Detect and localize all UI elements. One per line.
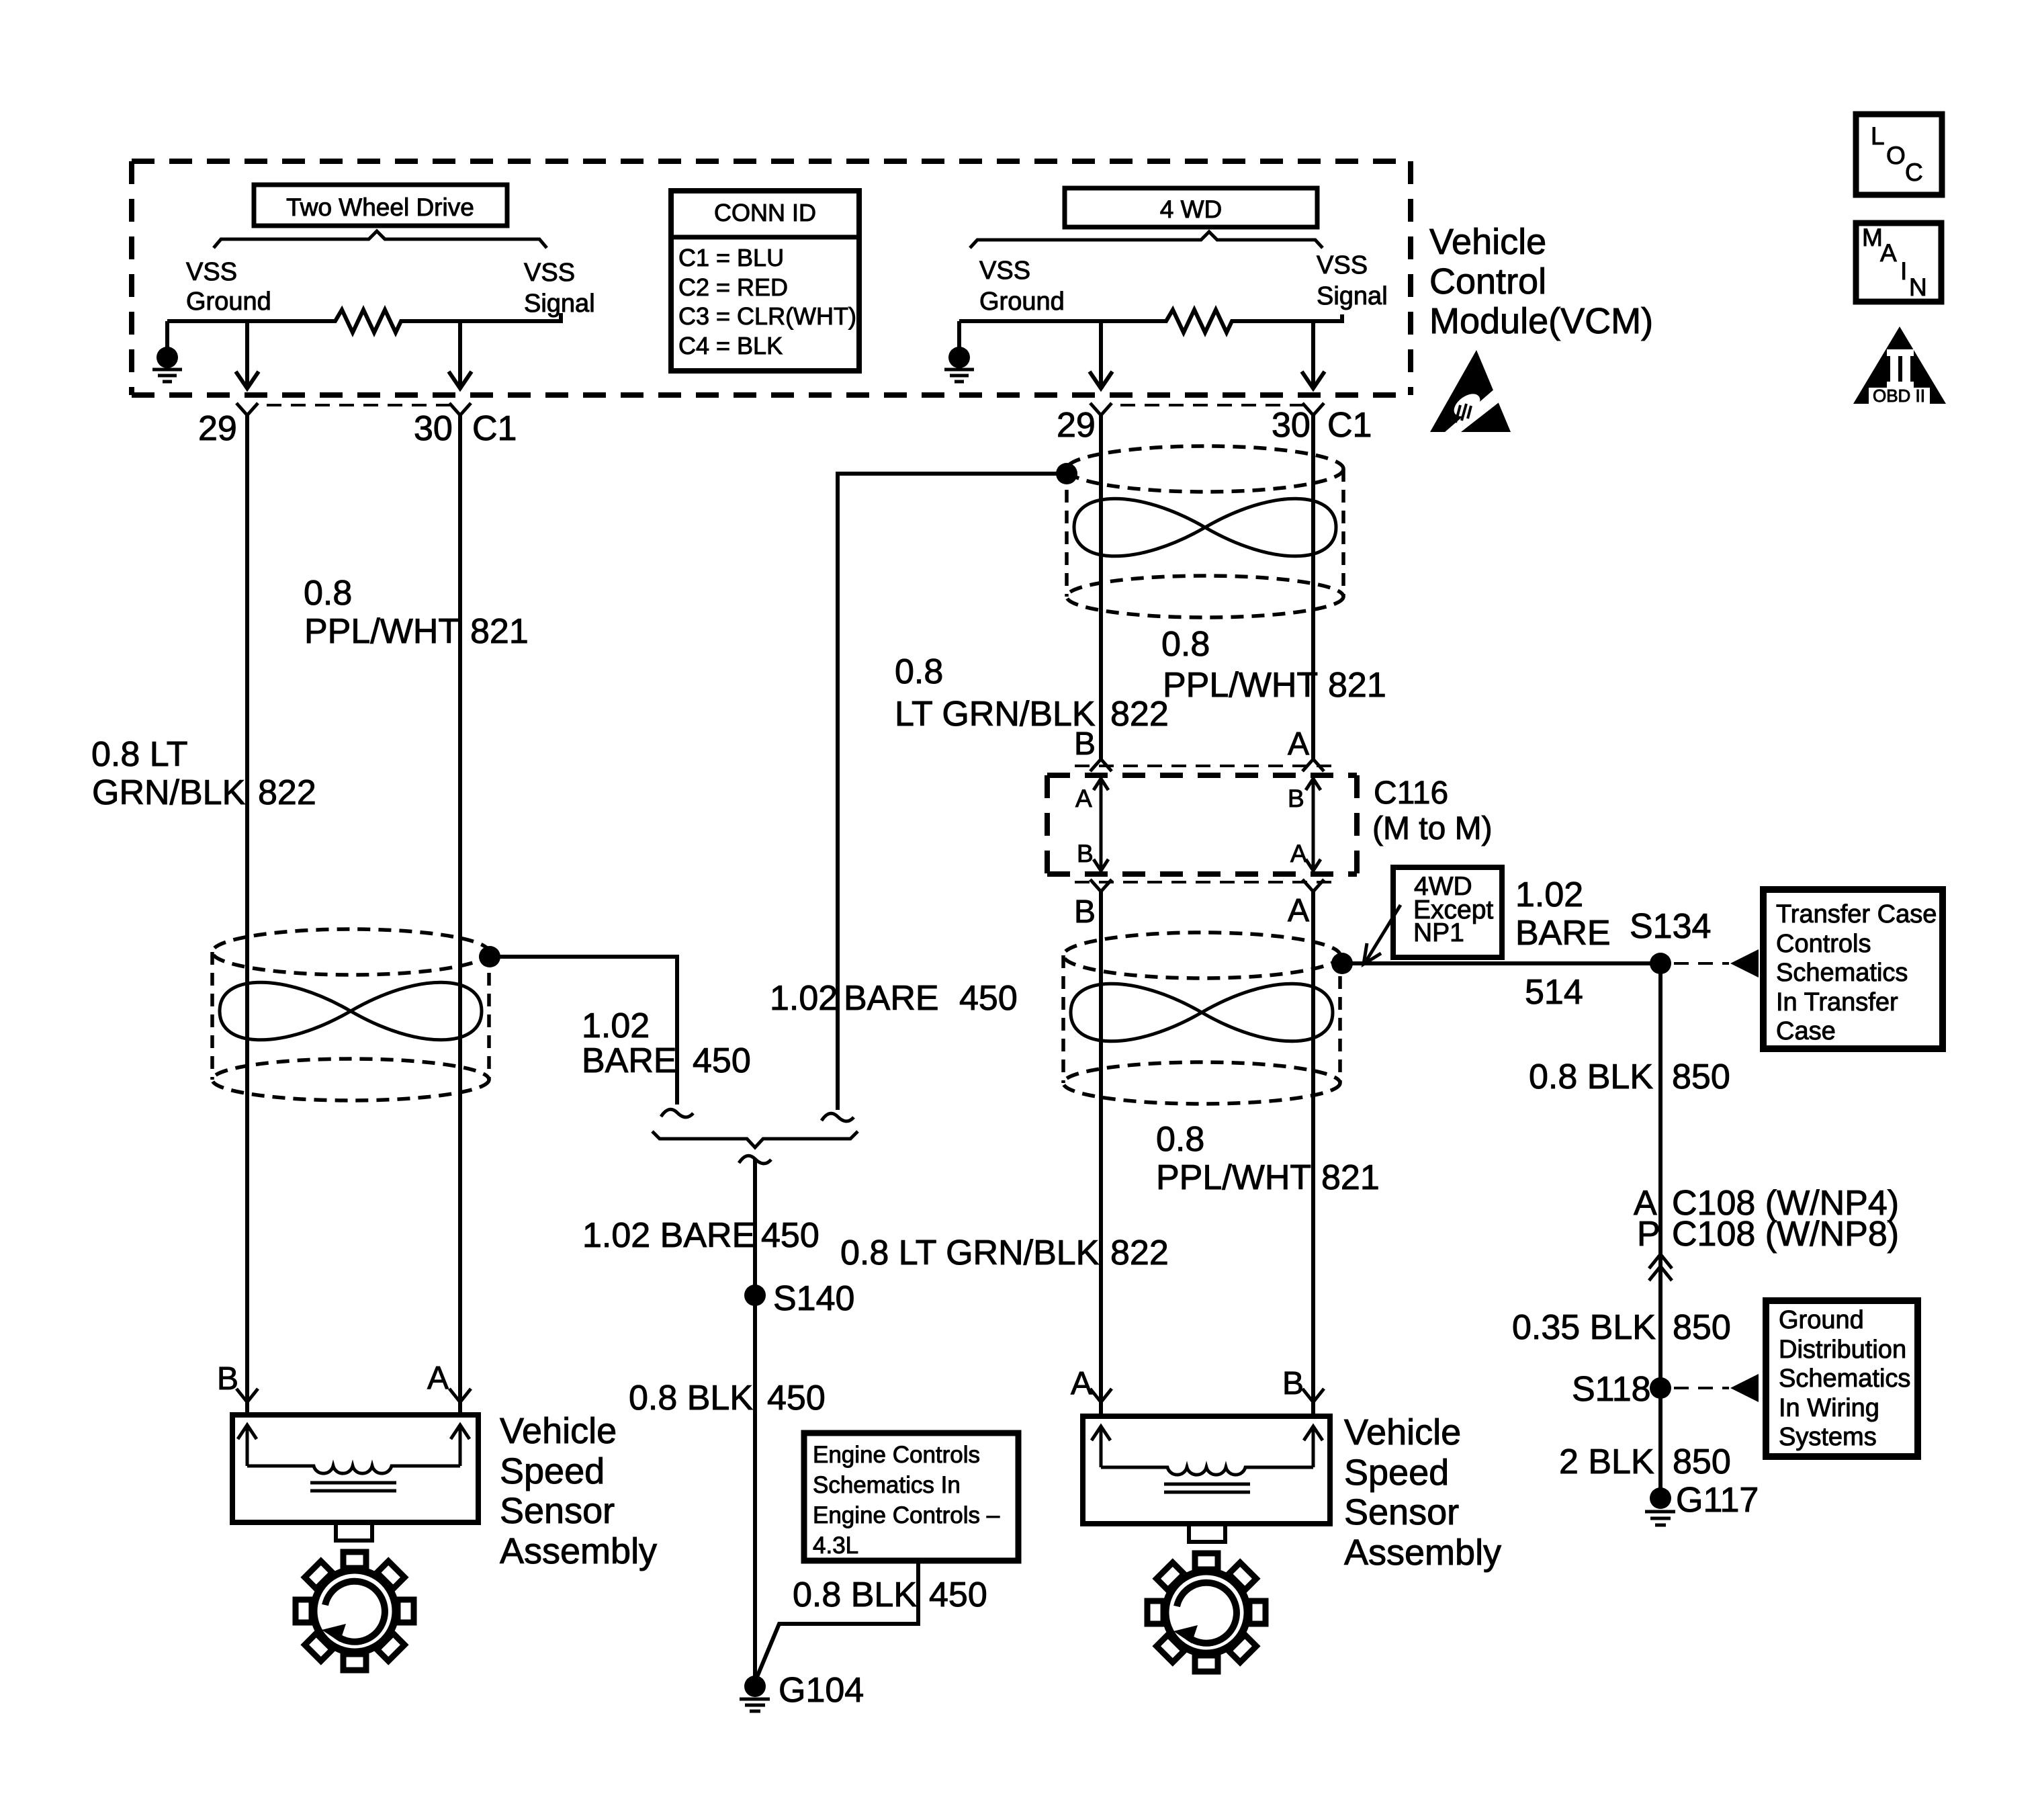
svg-text:0.8: 0.8 — [1161, 625, 1210, 664]
pin letters B A above C116 — [1074, 726, 1309, 762]
sensor connector forks (left assembly) — [236, 1389, 471, 1415]
svg-text:In Transfer: In Transfer — [1776, 988, 1898, 1016]
down arrow pin 30 (4WD) — [1302, 321, 1325, 388]
splice S134 — [1630, 907, 1711, 974]
svg-text:S134: S134 — [1630, 907, 1711, 946]
Vehicle Speed Sensor Assembly label (right) — [1344, 1412, 1501, 1573]
label 1.02 BARE 450 (above S140) — [582, 1216, 819, 1255]
svg-text:1.02 BARE: 1.02 BARE — [582, 1216, 755, 1255]
VSS Ground label (4WD) — [979, 257, 1065, 316]
svg-text:C: C — [1905, 159, 1923, 186]
resistor (2WD VSS bias) and internal wire — [167, 310, 561, 333]
svg-text:1.02: 1.02 — [770, 979, 838, 1018]
svg-text:4.3L: 4.3L — [813, 1532, 858, 1559]
svg-text:C4 = BLK: C4 = BLK — [678, 332, 783, 359]
down arrow pin 29 (2WD) — [236, 321, 259, 388]
label 0.8 LT GRN/BLK 822 (4WD upper) — [895, 652, 1169, 734]
wire 822 right column upper — [1099, 415, 1103, 760]
svg-text:0.8: 0.8 — [895, 652, 943, 691]
svg-text:450: 450 — [929, 1575, 987, 1614]
shield drain junction dot (4WD lower) — [1331, 953, 1353, 974]
svg-text:C2 = RED: C2 = RED — [678, 273, 788, 301]
VSS Signal label (4WD) — [1317, 251, 1388, 310]
dashed reference S134 to Transfer Case box — [1674, 949, 1759, 978]
svg-text:1.02: 1.02 — [1515, 875, 1583, 914]
label 1.02 BARE 450 (right branch) — [770, 979, 1018, 1018]
label 0.8 BLK 450 (engine controls ground) — [793, 1575, 987, 1614]
reluctor gear (left) — [296, 1552, 414, 1670]
LOC symbol — [1856, 114, 1942, 195]
Vehicle Control Module (VCM) label — [1429, 222, 1653, 341]
svg-text:B: B — [217, 1361, 238, 1397]
svg-text:A: A — [1880, 239, 1897, 267]
sensor connector forks (right assembly) — [1090, 1389, 1324, 1416]
svg-text:BARE: BARE — [844, 979, 939, 1018]
shield (4WD upper twisted pair) — [1067, 446, 1343, 617]
svg-text:850: 850 — [1673, 1442, 1731, 1481]
wire 821 left column — [458, 415, 462, 1402]
reluctor gear (right) — [1147, 1553, 1266, 1672]
ground symbol inside VCM (2WD) — [152, 321, 182, 382]
svg-text:In Wiring: In Wiring — [1779, 1394, 1879, 1422]
svg-text:Control: Control — [1429, 261, 1546, 302]
svg-text:S118: S118 — [1572, 1370, 1651, 1409]
svg-text:Vehicle: Vehicle — [1344, 1412, 1461, 1453]
svg-text:30: 30 — [1272, 406, 1311, 445]
C116 internal arrow (right, B to A) — [1288, 779, 1321, 871]
label 0.8 PPL/WHT 821 (4WD lower) — [1156, 1120, 1380, 1197]
svg-text:A: A — [1288, 726, 1309, 762]
wire break tilde (left branch) — [661, 1109, 693, 1117]
svg-text:30: 30 — [414, 409, 453, 448]
svg-text:PPL/WHT: PPL/WHT — [304, 612, 459, 651]
wire 822 left column — [245, 415, 249, 1402]
svg-text:450: 450 — [693, 1041, 751, 1080]
svg-text:G104: G104 — [779, 1671, 864, 1710]
svg-text:C1: C1 — [472, 409, 517, 448]
svg-text:Distribution: Distribution — [1779, 1336, 1906, 1364]
svg-text:C108 (W/NP8): C108 (W/NP8) — [1672, 1215, 1899, 1254]
svg-text:Sensor: Sensor — [500, 1491, 615, 1531]
svg-text:CONN ID: CONN ID — [714, 199, 816, 226]
svg-text:Case: Case — [1776, 1017, 1836, 1045]
svg-text:B: B — [1077, 840, 1094, 867]
Transfer Case reference box — [1763, 890, 1943, 1049]
svg-text:L: L — [1871, 122, 1885, 150]
C116 internal arrow (left, A to B) — [1075, 779, 1108, 871]
MAIN symbol — [1856, 223, 1941, 302]
svg-text:850: 850 — [1672, 1057, 1730, 1096]
svg-text:Vehicle: Vehicle — [1429, 222, 1546, 262]
OBD II symbol — [1853, 327, 1946, 406]
wire 822 right column lower — [1099, 890, 1103, 1402]
label 2 BLK 850 — [1559, 1442, 1731, 1481]
svg-text:450: 450 — [959, 979, 1018, 1018]
splice gathering brace — [652, 1131, 858, 1147]
ground wire S134 to G117 — [1658, 963, 1662, 1489]
shield (left twisted pair) — [212, 929, 489, 1100]
svg-text:Two Wheel Drive: Two Wheel Drive — [286, 193, 474, 221]
wire break tilde (right branch) — [822, 1113, 854, 1121]
svg-text:BARE: BARE — [1515, 914, 1611, 953]
svg-text:Assembly: Assembly — [500, 1531, 657, 1571]
VSS Ground label (2WD) — [186, 258, 271, 316]
down arrow pin 30 (2WD) — [449, 321, 472, 388]
arrow from 4WD Except NP1 box to shield dot — [1364, 905, 1401, 964]
svg-text:Assembly: Assembly — [1344, 1532, 1501, 1573]
svg-text:1.02: 1.02 — [582, 1006, 650, 1045]
svg-text:Controls: Controls — [1776, 930, 1871, 958]
svg-text:0.8 LT GRN/BLK: 0.8 LT GRN/BLK — [840, 1233, 1100, 1272]
dashed reference S118 to Ground Distribution box — [1674, 1374, 1759, 1402]
svg-text:OBD II: OBD II — [1873, 386, 1925, 406]
Two Wheel Drive box — [254, 185, 507, 226]
svg-text:B: B — [1074, 726, 1096, 762]
svg-text:Sensor: Sensor — [1344, 1492, 1459, 1532]
svg-text:G117: G117 — [1676, 1481, 1759, 1520]
svg-text:822: 822 — [1110, 695, 1169, 734]
CONN ID box — [671, 191, 859, 371]
svg-text:BARE: BARE — [582, 1041, 677, 1080]
drain wire upper shield to splice branch — [838, 474, 1067, 1110]
label 0.35 BLK 850 — [1512, 1308, 1731, 1347]
svg-text:VSS: VSS — [186, 258, 237, 286]
svg-text:29: 29 — [198, 409, 237, 448]
C116 connector dashed box — [1047, 775, 1357, 874]
drain wire lower shield to S134 — [1342, 961, 1660, 965]
svg-text:PPL/WHT: PPL/WHT — [1163, 666, 1318, 705]
svg-text:29: 29 — [1057, 406, 1096, 445]
connector C1 terminals (2WD pins 29,30) — [236, 403, 471, 415]
label 1.02 BARE 450 (left branch) — [582, 1006, 751, 1080]
svg-text:4 WD: 4 WD — [1160, 196, 1223, 223]
svg-text:A: A — [1288, 893, 1309, 928]
svg-text:Speed: Speed — [500, 1451, 605, 1491]
splice wire down to S140 and G104 — [753, 1159, 757, 1677]
svg-text:Module(VCM): Module(VCM) — [1429, 301, 1653, 341]
svg-text:A: A — [1075, 785, 1092, 812]
wire 821 right column upper — [1311, 415, 1315, 760]
svg-text:Engine Controls: Engine Controls — [813, 1442, 980, 1468]
svg-text:Vehicle: Vehicle — [500, 1411, 617, 1451]
ground G104 — [740, 1671, 864, 1711]
ESD sensitivity symbol — [1430, 350, 1511, 441]
svg-text:450: 450 — [767, 1379, 826, 1418]
svg-text:GRN/BLK: GRN/BLK — [92, 773, 246, 812]
svg-text:VSS: VSS — [524, 259, 575, 287]
svg-text:822: 822 — [1110, 1233, 1169, 1272]
svg-text:Speed: Speed — [1344, 1453, 1449, 1493]
svg-text:PPL/WHT: PPL/WHT — [1156, 1158, 1311, 1197]
shield drain junction dot (4WD upper) — [1056, 463, 1077, 484]
svg-text:B: B — [1288, 785, 1304, 812]
svg-text:C3 = CLR(WHT): C3 = CLR(WHT) — [678, 302, 856, 330]
label 1.02 BARE 514 (S134 feed) — [1515, 875, 1611, 1012]
svg-text:B: B — [1074, 894, 1096, 930]
label 0.8 BLK 450 (below S140) — [629, 1379, 826, 1418]
svg-text:A: A — [427, 1360, 449, 1396]
Ground Distribution reference box — [1766, 1301, 1918, 1457]
Engine Controls reference box — [804, 1433, 1018, 1561]
down arrow pin 29 (4WD) — [1090, 321, 1112, 388]
C116 lower terminals — [1075, 879, 1337, 892]
svg-text:514: 514 — [1525, 973, 1583, 1012]
svg-text:(M to M): (M to M) — [1372, 811, 1493, 847]
label 0.8 PPL/WHT 821 (left) — [304, 574, 529, 651]
sensor terminals A B (right assembly) — [1071, 1366, 1304, 1401]
sensor terminals B A (left assembly) — [217, 1360, 449, 1397]
svg-text:C116: C116 — [1374, 775, 1448, 811]
label 0.8 PPL/WHT 821 (4WD upper) — [1161, 625, 1386, 705]
pin letters B A below C116 — [1074, 893, 1309, 930]
svg-text:N: N — [1909, 273, 1927, 301]
VSS Signal label (2WD) — [524, 259, 595, 318]
C116 label — [1372, 775, 1493, 847]
svg-text:Signal: Signal — [1317, 282, 1388, 310]
shield (4WD lower twisted pair) — [1063, 933, 1340, 1104]
4WD Except NP1 box — [1393, 867, 1502, 957]
svg-text:0.8: 0.8 — [1156, 1120, 1204, 1159]
svg-text:S140: S140 — [773, 1279, 854, 1318]
svg-text:Schematics: Schematics — [1779, 1364, 1910, 1393]
svg-text:Schematics: Schematics — [1776, 959, 1908, 987]
connector C108 labels — [1634, 1184, 1899, 1254]
wire from Engine Controls box to G104 — [757, 1561, 918, 1677]
svg-text:C1: C1 — [1327, 406, 1372, 445]
svg-text:O: O — [1886, 142, 1906, 169]
svg-text:A: A — [1071, 1366, 1092, 1401]
brace under 4 WD — [970, 232, 1323, 248]
svg-text:821: 821 — [1321, 1158, 1380, 1197]
svg-text:0.8 BLK: 0.8 BLK — [629, 1379, 753, 1418]
svg-text:450: 450 — [761, 1216, 819, 1255]
svg-text:822: 822 — [258, 773, 316, 812]
svg-text:Ground: Ground — [186, 288, 271, 316]
svg-text:850: 850 — [1673, 1308, 1731, 1347]
svg-text:821: 821 — [1328, 666, 1386, 705]
Vehicle Speed Sensor box (right) — [1083, 1416, 1330, 1542]
label 0.8 LT GRN/BLK 822 (left) — [91, 735, 316, 812]
ground symbol inside VCM (4WD) — [944, 321, 974, 382]
svg-text:Engine Controls –: Engine Controls – — [813, 1502, 1000, 1528]
svg-text:2 BLK: 2 BLK — [1559, 1442, 1654, 1481]
svg-text:VSS: VSS — [1317, 251, 1368, 279]
connector C108 chevrons — [1649, 1254, 1672, 1281]
pin labels 29 30 C1 (2WD) — [198, 409, 517, 448]
svg-text:LT GRN/BLK: LT GRN/BLK — [895, 695, 1096, 734]
C116 upper terminals — [1075, 759, 1337, 771]
Vehicle Speed Sensor Assembly label (left) — [500, 1411, 657, 1571]
svg-text:B: B — [1282, 1366, 1304, 1401]
splice S140 — [744, 1279, 854, 1318]
svg-text:Ground: Ground — [1779, 1306, 1864, 1334]
svg-text:P: P — [1637, 1215, 1660, 1254]
drain wire left shield to splice branch — [490, 957, 677, 1104]
svg-text:Transfer Case: Transfer Case — [1776, 900, 1937, 928]
splice S118 — [1572, 1370, 1671, 1409]
ground G117 — [1645, 1481, 1759, 1525]
svg-text:0.8 BLK: 0.8 BLK — [793, 1575, 917, 1614]
svg-text:Systems: Systems — [1779, 1423, 1877, 1451]
svg-text:I: I — [1900, 257, 1907, 285]
resistor (4WD VSS bias) and internal wire — [959, 310, 1342, 333]
shield drain junction dot (left) — [479, 946, 500, 967]
svg-text:0.8 BLK: 0.8 BLK — [1529, 1057, 1653, 1096]
svg-text:C1 = BLU: C1 = BLU — [678, 244, 784, 271]
svg-text:VSS: VSS — [979, 257, 1030, 285]
wire 821 right column lower — [1311, 890, 1315, 1402]
Vehicle Speed Sensor box (left) — [232, 1415, 478, 1541]
wire break tilde (below brace) — [739, 1156, 771, 1164]
label 0.8 BLK 850 — [1529, 1057, 1730, 1096]
svg-text:Ground: Ground — [979, 288, 1065, 316]
svg-text:A: A — [1290, 840, 1307, 867]
svg-text:0.35 BLK: 0.35 BLK — [1512, 1308, 1656, 1347]
svg-text:NP1: NP1 — [1413, 918, 1464, 947]
brace under Two Wheel Drive — [214, 231, 547, 248]
connector C1 terminals (4WD pins 29,30) — [1090, 403, 1324, 415]
svg-text:0.8 LT: 0.8 LT — [91, 735, 188, 774]
svg-text:821: 821 — [470, 612, 529, 651]
svg-text:Schematics In: Schematics In — [813, 1472, 961, 1498]
label 0.8 LT GRN/BLK 822 (4WD lower) — [840, 1233, 1169, 1272]
4 WD box — [1065, 188, 1317, 227]
svg-text:0.8: 0.8 — [304, 574, 352, 613]
VCM module dashed box — [132, 161, 1411, 395]
pin labels 29 30 C1 (4WD) — [1057, 406, 1372, 445]
